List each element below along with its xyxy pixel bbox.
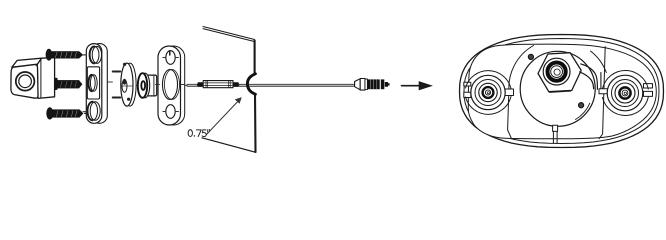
plug tip bbox=[385, 82, 390, 87]
mount bracket back bbox=[92, 44, 108, 124]
outer shell bbox=[460, 35, 664, 148]
camera bezel edge bbox=[40, 59, 42, 98]
disc pins bbox=[113, 72, 121, 98]
camera body bbox=[11, 58, 55, 99]
right tab inner bbox=[599, 89, 610, 94]
cover plate front bbox=[158, 46, 181, 125]
disc dots bbox=[123, 63, 126, 66]
screw top bbox=[46, 49, 87, 61]
coupler left cap bbox=[197, 82, 203, 87]
lens rings bbox=[543, 58, 570, 85]
grommet flange back bbox=[140, 73, 149, 98]
cover plate back bbox=[163, 46, 185, 125]
hexagon bbox=[538, 53, 581, 92]
cable stub bbox=[187, 84, 198, 86]
plug knurl bbox=[367, 79, 379, 89]
right boss bbox=[607, 75, 643, 111]
grommet flange bbox=[138, 73, 147, 98]
big arrow bbox=[402, 85, 420, 87]
gimbal circle bbox=[520, 51, 595, 126]
screw dots bbox=[528, 54, 533, 59]
bracket hole top bbox=[90, 46, 102, 63]
wall bottom edge bbox=[202, 138, 256, 153]
inner plate bbox=[468, 44, 656, 139]
plate ticks bbox=[156, 58, 186, 112]
left tab rim bbox=[464, 82, 471, 86]
left boss housing bbox=[466, 97, 512, 115]
right tab rim bbox=[644, 84, 653, 88]
bracket pad bbox=[87, 67, 99, 99]
plate hole center bbox=[163, 70, 178, 100]
bracket hole bottom bbox=[88, 102, 101, 121]
cable through wall bbox=[239, 84, 355, 86]
hexagon inner bbox=[540, 57, 580, 93]
disc back bbox=[124, 63, 136, 106]
coupler right cap bbox=[233, 82, 239, 87]
axis line bbox=[101, 82, 189, 85]
leader arrow bbox=[207, 100, 240, 135]
camera lens bbox=[16, 72, 35, 91]
channel bbox=[552, 129, 554, 144]
screw middle bbox=[54, 78, 82, 90]
disc slot bbox=[122, 80, 127, 92]
arm bbox=[581, 64, 598, 89]
coupler body bbox=[203, 81, 233, 88]
disc axis tick bbox=[121, 85, 133, 87]
right boss housing bbox=[603, 97, 649, 115]
mount bracket front bbox=[86, 44, 102, 124]
plate hole bottom bbox=[166, 105, 175, 119]
0.75 label bbox=[188, 129, 209, 136]
connector plug boot bbox=[355, 79, 361, 90]
wall hole bbox=[247, 74, 255, 94]
disc front bbox=[121, 63, 133, 106]
left tab inner bbox=[505, 89, 514, 96]
bracket hole center bbox=[88, 75, 97, 91]
wall right edge bbox=[254, 41, 256, 75]
wall top edge bbox=[203, 27, 255, 42]
bracket ticks bbox=[83, 55, 86, 112]
left boss bbox=[471, 75, 505, 109]
recess arcs bbox=[509, 46, 534, 94]
gimbal shadow arc bbox=[576, 103, 590, 119]
plate hole top bbox=[166, 51, 175, 65]
grommet cylinder bbox=[146, 75, 157, 96]
plug cylinder bbox=[360, 79, 365, 91]
plug ring bbox=[381, 79, 385, 89]
section dividers bbox=[508, 92, 512, 139]
screw bottom bbox=[46, 107, 86, 119]
